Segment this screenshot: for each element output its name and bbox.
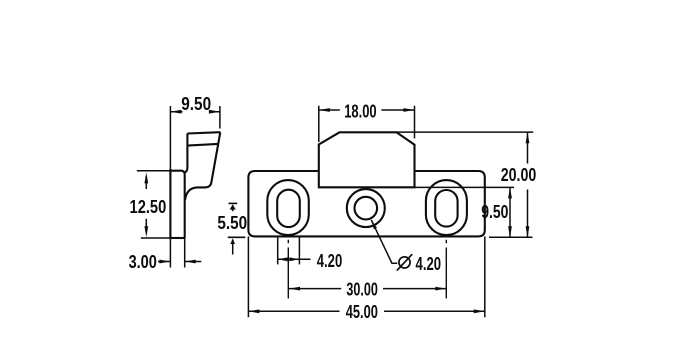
diameter symbol slash	[397, 254, 412, 270]
arrowhead 12.50 top	[144, 172, 148, 183]
right slot outer	[426, 180, 467, 235]
side view bent tab inner fold line	[187, 144, 218, 146]
dimension 9.50 front: dim line	[509, 187, 511, 237]
svg-text:45.00: 45.00	[346, 302, 378, 322]
dimension 18.00: extension lines	[319, 106, 415, 142]
svg-text:9.50: 9.50	[481, 202, 508, 222]
svg-text:4.20: 4.20	[416, 254, 442, 274]
left slot outer	[267, 180, 309, 235]
dimension 3.00: dim lines	[158, 261, 201, 263]
svg-text:5.50: 5.50	[217, 213, 247, 233]
dimension 20.00: bottom extension line	[489, 236, 533, 238]
dimension 5.50: top tick bar	[229, 202, 238, 204]
left slot inner	[277, 190, 300, 227]
dimension 9.50 front: top extension line	[415, 186, 515, 188]
right slot inner	[435, 190, 457, 227]
dimension 4.20 slot: extension lines	[278, 238, 300, 265]
center hole outer	[347, 189, 385, 227]
arrowhead leader	[371, 220, 377, 229]
svg-text:30.00: 30.00	[346, 280, 377, 300]
dimension 5.50: bottom stem	[232, 244, 234, 255]
svg-text:12.50: 12.50	[130, 197, 167, 217]
center hole inner	[355, 197, 378, 220]
arrowhead 20.00 bottom	[526, 226, 530, 237]
arrowhead 45.00 right	[474, 309, 485, 313]
dimension 9.50 side view: right extension	[219, 106, 221, 129]
svg-text:18.00: 18.00	[344, 101, 376, 121]
side view plate top edge and 12.50 top extension	[137, 170, 171, 172]
arrowhead 9.50 side right	[209, 110, 220, 114]
dimension 9.50 side view: dim line	[170, 111, 220, 113]
arrowhead 12.50 bottom	[144, 226, 148, 237]
arrowhead 9.50 side left	[170, 110, 181, 114]
arrowhead 18.00 right	[404, 108, 415, 112]
svg-text:20.00: 20.00	[501, 165, 537, 185]
arrowhead 9.50 front top	[508, 187, 512, 198]
arrowhead 4.20 left	[278, 257, 288, 261]
left slot centerline	[287, 240, 289, 299]
svg-text:9.50: 9.50	[181, 94, 211, 114]
dimension 20.00: top extension line	[397, 131, 534, 133]
arrowhead 45.00 left	[248, 309, 259, 313]
dimension 12.50: stems	[145, 176, 147, 233]
arrowhead 30.00 left	[289, 287, 300, 291]
dimension 45.00: extension lines	[248, 236, 484, 317]
side view bent tab top edge	[187, 132, 220, 133]
dimension 5.50: top stem	[232, 210, 234, 212]
arrowhead 5.50 top	[230, 204, 236, 209]
dimension 20.00: dim line	[527, 132, 529, 237]
arrowhead 20.00 top	[526, 132, 530, 143]
leader line for diameter 4.20	[371, 220, 397, 263]
dimension 30.00: dim line	[289, 288, 446, 290]
svg-text:3.00: 3.00	[129, 252, 157, 272]
side view bent tab right slant, bottom edge and bend curve	[185, 132, 220, 200]
dimension 18.00: dim line	[319, 109, 415, 111]
diameter symbol circle	[399, 257, 410, 268]
dimension 5.50: bottom extension line	[228, 236, 246, 238]
arrowhead 9.50 front bottom	[508, 226, 512, 237]
arrowhead 30.00 right	[435, 287, 446, 291]
arrowhead 18.00 left	[319, 108, 330, 112]
arrowhead 5.50 bottom	[230, 238, 235, 244]
right slot centerline	[445, 240, 447, 299]
side view bent tab left edge	[185, 134, 188, 173]
arrowhead 3.00 right	[185, 260, 196, 264]
arrowhead 3.00 left	[159, 260, 170, 264]
front view body outline	[248, 171, 484, 236]
side view plate left edge with 9.50 extension	[169, 106, 171, 170]
dimension 4.20 slot: dim line	[278, 258, 311, 260]
svg-text:4.20: 4.20	[317, 251, 343, 271]
side view extension lines below plate for 3.00	[170, 238, 184, 268]
front view raised tab (hump)	[319, 132, 415, 187]
dimension 45.00: dim line	[248, 310, 484, 312]
side view plate bottom edge and 12.50 bottom extension	[141, 237, 171, 239]
arrowhead 4.20 right	[289, 257, 299, 261]
